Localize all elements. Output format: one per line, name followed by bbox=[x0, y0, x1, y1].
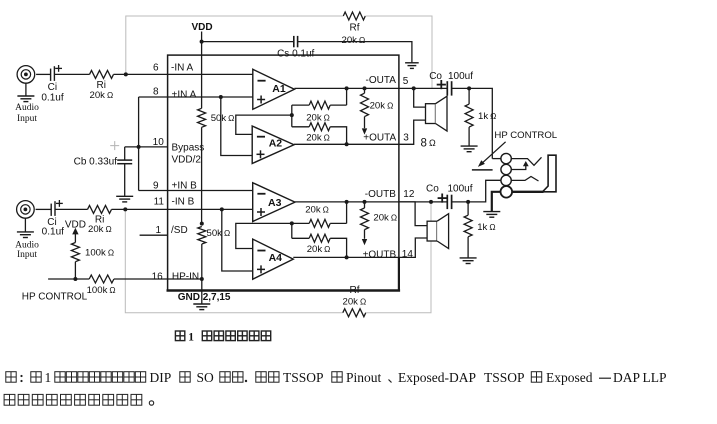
wire: 20k fb B right stub bbox=[330, 222, 346, 224]
svg-text:9: 9 bbox=[153, 181, 159, 192]
resistor 50k (Bypass to GND, internal) bbox=[198, 227, 206, 245]
registration cross (gray) bbox=[110, 145, 119, 147]
wire: 1k A to ground bbox=[468, 127, 470, 146]
svg-text:8: 8 bbox=[153, 87, 159, 98]
svg-text:-OUTB: -OUTB bbox=[365, 189, 396, 200]
svg-text:-IN A: -IN A bbox=[171, 62, 194, 73]
wire: 100k to HP CONTROL node bbox=[74, 262, 76, 279]
speaker 8 ohm (channel A) bbox=[426, 104, 436, 124]
arrow: load B down arrow bbox=[362, 239, 367, 245]
arrow: VDD up arrow bbox=[72, 228, 78, 235]
svg-text:+OUTB: +OUTB bbox=[363, 249, 397, 260]
svg-text:Audio: Audio bbox=[15, 240, 39, 250]
op-amp A1 bbox=[253, 69, 295, 109]
node: A4 output junction bbox=[345, 255, 349, 259]
svg-text:3: 3 bbox=[403, 133, 409, 144]
jack contact 3 (ring, from channel B) bbox=[501, 175, 511, 185]
pin 1 wire /SD stub bbox=[140, 234, 168, 236]
svg-text:Input: Input bbox=[17, 250, 37, 260]
resistor Ri 20k (channel B input) bbox=[88, 205, 112, 213]
node: A4 minus node bbox=[290, 221, 294, 225]
op-amp A3 bbox=[253, 183, 295, 222]
svg-text:100uf: 100uf bbox=[448, 184, 473, 195]
node: 1k A junction bbox=[467, 86, 471, 90]
wire: HP CONTROL stub bbox=[48, 278, 89, 280]
jack contact 2 (switch) bbox=[501, 164, 511, 174]
svg-text:1kΩ: 1kΩ bbox=[478, 111, 496, 122]
svg-text:Input: Input bbox=[17, 114, 37, 124]
svg-text:Ci: Ci bbox=[48, 82, 57, 93]
wire: gray feedback loop A from Rf to -OUTA node bbox=[365, 16, 432, 88]
svg-text:12: 12 bbox=[403, 189, 415, 200]
wire: A1 output to -OUTA bbox=[294, 87, 399, 89]
node: HP-IN internal junction bbox=[200, 277, 204, 281]
ground (1k B) bbox=[460, 257, 477, 259]
wire: A2 output to +OUTA bbox=[294, 143, 399, 145]
capacitor Co 100uf (channel A) bbox=[446, 81, 448, 95]
svg-text:TSSOP: TSSOP bbox=[283, 370, 324, 385]
wire: gray feedback loop channel B (node -INB down and across to Rf bottom) bbox=[125, 209, 342, 312]
node: internal 20k-B top bbox=[363, 200, 367, 204]
node: Rf B junction bbox=[429, 200, 433, 204]
svg-text:Pinout: Pinout bbox=[346, 370, 382, 385]
resistor 100k (pull-up to VDD) bbox=[71, 243, 79, 262]
resistor 20k (internal load A) bbox=[364, 88, 366, 93]
svg-text:20kΩ: 20kΩ bbox=[90, 90, 114, 101]
node: A2 output junction bbox=[345, 142, 349, 146]
svg-text:5: 5 bbox=[403, 76, 409, 87]
wire: fb node B vertical bbox=[291, 223, 293, 238]
svg-text:Bypass: Bypass bbox=[172, 142, 205, 153]
svg-text:20kΩ: 20kΩ bbox=[370, 100, 394, 111]
op-amp A4 bbox=[253, 239, 294, 279]
capacitor Co 100uf (channel B) bbox=[446, 195, 448, 209]
wire: switch movable contact bbox=[472, 169, 493, 171]
caption: 图1 典型应用电路 (Figure 1 typical application circuit) bbox=[175, 331, 184, 341]
ground (jack A) bbox=[25, 83, 27, 95]
svg-text:HP CONTROL: HP CONTROL bbox=[22, 292, 88, 303]
note text line 1 (Chinese + Latin) bbox=[6, 372, 16, 383]
resistor Rf (bottom, 20k) in feedback loop B bbox=[343, 309, 366, 317]
wire: A2 minus routing bbox=[236, 115, 292, 134]
node: speaker A junction bbox=[412, 86, 416, 90]
wire: +OUTB to speaker B bbox=[399, 238, 427, 257]
resistor 20k (A2 input) bbox=[309, 123, 330, 131]
wire: A4 minus routing bbox=[236, 223, 292, 248]
wire: +OUTA to speaker A bbox=[399, 120, 426, 144]
svg-text:0.1uf: 0.1uf bbox=[41, 93, 63, 104]
svg-text:Cs 0.1uf: Cs 0.1uf bbox=[277, 48, 314, 59]
wire: VDD horizontal to decoupling bbox=[202, 41, 294, 43]
resistor 1k (channel B jack load) bbox=[464, 215, 472, 237]
svg-text:-IN B: -IN B bbox=[172, 196, 195, 207]
node: VDD tap junction bbox=[200, 40, 204, 44]
svg-text:20kΩ: 20kΩ bbox=[307, 244, 331, 255]
svg-text:HP-IN: HP-IN bbox=[172, 272, 199, 283]
svg-text:A3: A3 bbox=[268, 197, 282, 209]
svg-text:16: 16 bbox=[152, 271, 164, 282]
wire: jack B to Ci B bbox=[36, 208, 52, 210]
wire: sleeve to ground bbox=[492, 192, 501, 211]
ground (VDD decoupling) bbox=[405, 62, 419, 64]
capacitor Cb 0.33uf (bypass) bbox=[124, 147, 126, 160]
svg-text:20kΩ: 20kΩ bbox=[343, 297, 367, 308]
pin 8 wire +IN A bbox=[139, 96, 253, 98]
IC U1 package outline (DIP/SO) bbox=[168, 55, 399, 290]
node: A3 plus input branch junction bbox=[220, 207, 224, 211]
wire: +INA branch to A2 plus bbox=[221, 97, 252, 156]
wire: 20k load A to arrow bbox=[364, 117, 366, 129]
svg-text:A4: A4 bbox=[269, 252, 283, 264]
wire: 20k fb B left stub bbox=[292, 222, 309, 224]
svg-text:1: 1 bbox=[45, 370, 52, 385]
pin 10 wire Bypass bbox=[125, 146, 168, 148]
ground (1k A) bbox=[461, 145, 478, 147]
wire: Ci to Ri channel A bbox=[54, 73, 89, 75]
svg-text:20kΩ: 20kΩ bbox=[342, 35, 366, 46]
svg-text:Exposed-DAP: Exposed-DAP bbox=[398, 370, 476, 385]
RCA jack: Audio Input B bbox=[17, 201, 35, 219]
resistor Rf (top, 20k) in feedback loop A bbox=[343, 12, 365, 20]
svg-text:VDD: VDD bbox=[191, 22, 212, 33]
svg-text:A2: A2 bbox=[269, 137, 283, 149]
arrow: HP CONTROL pointer bbox=[481, 142, 506, 165]
wire: fb node vertical bbox=[291, 105, 293, 127]
svg-text:14: 14 bbox=[402, 249, 414, 260]
svg-text:A1: A1 bbox=[272, 83, 286, 95]
svg-text:20kΩ: 20kΩ bbox=[373, 213, 397, 224]
ground (jack B) bbox=[24, 218, 26, 231]
jack contact 4 (sleeve) bbox=[501, 186, 513, 198]
svg-text:8: 8 bbox=[421, 138, 427, 150]
svg-text:VDD/2: VDD/2 bbox=[172, 154, 202, 165]
capacitor Ci 0.1uf (input, channel B) bbox=[50, 204, 52, 216]
op-amp A2 bbox=[252, 126, 294, 164]
svg-text:20kΩ: 20kΩ bbox=[305, 205, 329, 216]
svg-text:6: 6 bbox=[153, 62, 159, 73]
wire: VDD after Cs to ground corner bbox=[298, 42, 412, 63]
wire: down to 1k B bbox=[467, 202, 469, 215]
svg-text:50kΩ: 50kΩ bbox=[207, 228, 231, 239]
svg-text:100kΩ: 100kΩ bbox=[85, 248, 114, 259]
resistor 20k (A1 feedback) bbox=[309, 101, 330, 109]
svg-text:Audio: Audio bbox=[15, 103, 39, 113]
node: internal 20k-A top bbox=[363, 86, 367, 90]
wire: gray feedback loop B from Rf to -OUTB node bbox=[366, 202, 431, 313]
svg-text:1kΩ: 1kΩ bbox=[477, 222, 495, 233]
svg-text:20kΩ: 20kΩ bbox=[88, 224, 112, 235]
svg-text:Ω: Ω bbox=[429, 138, 436, 148]
svg-text:HP CONTROL: HP CONTROL bbox=[494, 130, 557, 141]
node: HP control junction bbox=[73, 277, 77, 281]
resistor 1k (channel A jack load) bbox=[465, 104, 473, 127]
jack body (plug outline) bbox=[543, 155, 557, 192]
wire: 20k A4 right to A4 out bbox=[330, 238, 346, 257]
svg-text:50kΩ: 50kΩ bbox=[211, 113, 235, 124]
wire: A3 plus branch to A4 plus bbox=[222, 209, 253, 271]
speaker 8 ohm (channel B) bbox=[427, 221, 437, 241]
wire: down to 1k A bbox=[468, 88, 470, 104]
wire: 20k A4 left stub bbox=[292, 237, 309, 239]
svg-text:100kΩ: 100kΩ bbox=[87, 285, 116, 296]
wire: 20k A2 left stub bbox=[292, 126, 309, 128]
svg-text:/SD: /SD bbox=[171, 225, 188, 236]
resistor 50k (VDD to Bypass, internal) bbox=[198, 108, 206, 127]
svg-text:TSSOP: TSSOP bbox=[484, 370, 525, 385]
svg-text:11: 11 bbox=[154, 196, 165, 207]
wire: Co B to jack ring bbox=[452, 180, 501, 202]
wire: A3 out down to 20k fb B bbox=[346, 202, 348, 224]
svg-text:1: 1 bbox=[155, 225, 161, 236]
wire: 20k load B to arrow bbox=[364, 230, 366, 239]
wire: 100k to pin 16 HP-IN bbox=[114, 278, 202, 280]
resistor Ri 20k (channel A input) bbox=[90, 70, 114, 78]
wire: 20k fb A right stub bbox=[330, 104, 346, 106]
IC right edge lower (thick) bbox=[398, 257, 400, 290]
wire: A1 out down to 20k feedback bbox=[346, 88, 348, 105]
node: A3 feedback takeoff bbox=[345, 200, 349, 204]
resistor 20k (internal load B) bbox=[364, 202, 366, 208]
svg-text:Cb 0.33uf: Cb 0.33uf bbox=[74, 157, 118, 168]
node: +INA junction bbox=[219, 95, 223, 99]
svg-text:Rf: Rf bbox=[350, 23, 360, 34]
svg-text:+IN A: +IN A bbox=[172, 90, 197, 101]
ground (jack sleeve) bbox=[483, 211, 500, 213]
svg-text:Co: Co bbox=[426, 184, 439, 195]
wire: Ri B to pin 11 -IN B and A3 plus input bbox=[112, 208, 253, 210]
wire: bias line Bypass segment bbox=[201, 127, 203, 223]
node: Bypass tie junction bbox=[137, 145, 141, 149]
node: -INB feedback junction bbox=[123, 207, 127, 211]
polarity + of Co A bbox=[437, 84, 446, 86]
wire: 20k A2 right to A2 out bbox=[330, 127, 346, 145]
jack contact 1 switch lever bbox=[511, 157, 541, 165]
RCA jack: Audio Input A bbox=[17, 66, 35, 84]
node: 1k B junction bbox=[466, 200, 470, 204]
svg-text:Exposed: Exposed bbox=[546, 370, 593, 385]
wire: A4 output to +OUTB bbox=[293, 256, 399, 258]
ground (Cb) bbox=[116, 195, 133, 197]
wire: A3 output to -OUTB bbox=[295, 201, 399, 203]
svg-text:-OUTA: -OUTA bbox=[366, 75, 397, 86]
svg-text:10: 10 bbox=[153, 137, 165, 148]
polarity + of Ci B bbox=[56, 202, 63, 204]
wire: bias line to GND bbox=[201, 244, 203, 291]
wire: +INA/+INB tie to Bypass (external) bbox=[138, 97, 140, 191]
note text line 2 (Chinese) bbox=[4, 394, 15, 405]
polarity + of Ci A bbox=[55, 67, 62, 69]
pin 9 wire +IN B bbox=[139, 190, 253, 192]
node: -INA feedback junction bbox=[124, 72, 128, 76]
wire: jack A to Ci bbox=[36, 73, 51, 75]
wire: 1k B to ground bbox=[467, 237, 469, 258]
resistor 20k (A4 input) bbox=[309, 234, 330, 242]
svg-text:0.1uf: 0.1uf bbox=[42, 226, 64, 237]
wire: speaker A top feed bbox=[414, 88, 426, 107]
polarity + of Co B bbox=[438, 197, 447, 199]
svg-text:20kΩ: 20kΩ bbox=[306, 133, 330, 144]
svg-text:Co: Co bbox=[429, 71, 442, 82]
svg-text:DIP: DIP bbox=[150, 370, 172, 385]
svg-text:SO: SO bbox=[197, 370, 215, 385]
IC bottom edge (thick) bbox=[167, 289, 401, 292]
arrow: load A down arrow bbox=[362, 128, 367, 134]
wire: Ci B to Ri B bbox=[55, 208, 88, 210]
capacitor Cs 0.1uf (supply decoupling) bbox=[293, 36, 295, 47]
resistor 100k (series to HP-IN) bbox=[89, 275, 114, 283]
svg-text:20kΩ: 20kΩ bbox=[306, 112, 330, 123]
svg-text:+IN B: +IN B bbox=[172, 181, 198, 192]
wire: -OUTB to Co B bbox=[399, 201, 447, 203]
resistor 20k (A3 feedback) bbox=[309, 219, 330, 227]
svg-text:LLP: LLP bbox=[643, 370, 667, 385]
wire: 20k fb A left stub bbox=[292, 104, 309, 106]
wire: speaker B top feed bbox=[399, 202, 427, 226]
ground (IC GND pins) bbox=[201, 291, 203, 304]
wire: Co A to headphone jack bbox=[452, 88, 493, 158]
svg-text:100uf: 100uf bbox=[448, 71, 473, 82]
jack contact 1 (tip, from channel A) bbox=[492, 158, 501, 160]
svg-text:DAP: DAP bbox=[613, 370, 640, 385]
wire: sleeve contact to jack body (thick) bbox=[512, 191, 543, 193]
node: A1 feedback takeoff bbox=[345, 86, 349, 90]
wire: Ri to pin 6 -IN A bbox=[114, 73, 253, 75]
svg-text:+OUTA: +OUTA bbox=[363, 133, 396, 144]
wire: gray feedback loop channel A (node -INA up and across to Rf) bbox=[126, 16, 343, 74]
wire: -OUTA to Co A bbox=[399, 87, 447, 89]
wire: VDD vertical into IC / bias divider line bbox=[201, 32, 203, 109]
capacitor Ci 0.1uf (input, channel A) bbox=[50, 69, 52, 81]
node: A2 minus node bbox=[290, 113, 294, 117]
node: 50k-B top junction bbox=[200, 222, 204, 226]
svg-text:1: 1 bbox=[188, 332, 194, 344]
svg-text:GND 2,7,15: GND 2,7,15 bbox=[178, 292, 231, 303]
